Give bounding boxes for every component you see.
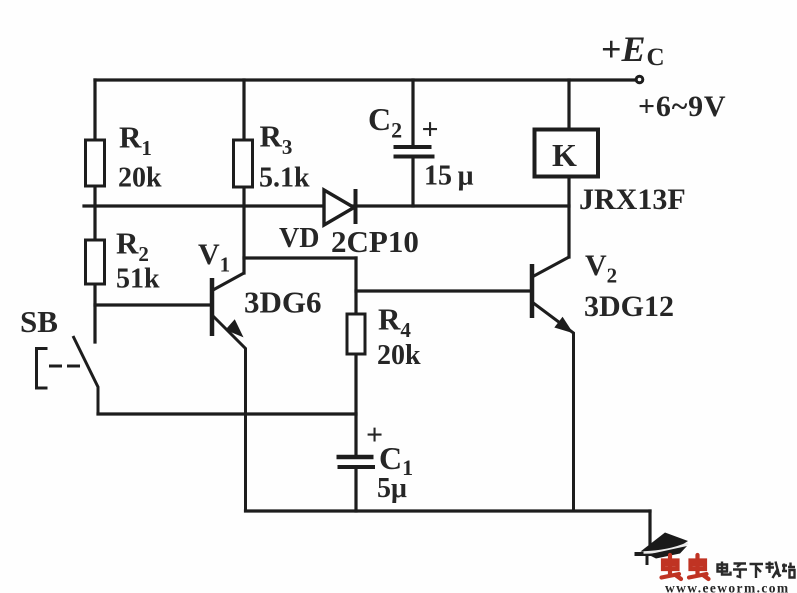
svg-text:V1: V1 xyxy=(198,238,230,277)
capacitor C1 xyxy=(337,457,376,467)
svg-text:+6~9V: +6~9V xyxy=(638,90,726,123)
svg-text:K: K xyxy=(552,137,577,173)
svg-text:3DG6: 3DG6 xyxy=(244,285,322,320)
wire ground drop xyxy=(648,511,651,553)
watermark site name characters xyxy=(718,562,796,579)
svg-text:3DG12: 3DG12 xyxy=(584,290,674,323)
svg-text:R2: R2 xyxy=(116,226,149,267)
svg-text:JRX13F: JRX13F xyxy=(579,183,686,216)
wire C2 bottom xyxy=(411,157,414,206)
wire V2 base line xyxy=(356,289,531,292)
svg-text:51k: 51k xyxy=(116,264,160,295)
wire R3 / V1 collector column xyxy=(242,80,245,273)
wire top +Ec rail xyxy=(95,78,636,81)
svg-text:5.1k: 5.1k xyxy=(259,163,310,194)
terminal +Ec xyxy=(636,76,643,83)
resistor R4 xyxy=(347,314,365,354)
capacitor C2 xyxy=(394,147,435,157)
svg-text:20k: 20k xyxy=(118,163,162,194)
wire collector-to-R4 link xyxy=(244,256,356,259)
ground xyxy=(635,554,668,565)
wire K bottom / V2 collector xyxy=(567,177,570,257)
svg-text:R4: R4 xyxy=(378,302,411,343)
svg-text:15 μ: 15 μ xyxy=(424,161,474,192)
resistor R1 xyxy=(86,140,105,186)
wire V1 base line xyxy=(95,303,211,306)
resistor R2 xyxy=(86,240,105,284)
svg-text:www.eeworm.com: www.eeworm.com xyxy=(665,581,790,593)
wire left column xyxy=(93,80,96,342)
transistor V2 xyxy=(532,257,574,511)
svg-text:VD: VD xyxy=(279,223,319,254)
svg-text:20k: 20k xyxy=(377,340,421,371)
transistor V1 xyxy=(212,273,246,511)
wire K top xyxy=(567,80,570,129)
svg-text:R3: R3 xyxy=(260,119,293,160)
watermark chongchong characters xyxy=(662,555,709,579)
svg-text:V2: V2 xyxy=(585,249,617,288)
svg-text:+: + xyxy=(366,419,383,452)
wire diode row xyxy=(84,204,569,207)
svg-text:R1: R1 xyxy=(119,120,152,161)
svg-text:+EC: +EC xyxy=(601,29,665,71)
relay K xyxy=(535,130,599,177)
watermark graduation cap logo xyxy=(641,533,689,559)
wire switch bottom row xyxy=(98,412,356,415)
svg-text:2CP10: 2CP10 xyxy=(331,224,419,259)
svg-text:5μ: 5μ xyxy=(377,473,407,504)
diode VD xyxy=(324,189,356,225)
resistor R3 xyxy=(234,140,253,187)
switch SB xyxy=(37,336,99,414)
wire bottom emitter rail xyxy=(246,509,651,512)
wire R4 column lower xyxy=(354,468,357,511)
wire C2 top xyxy=(411,80,414,145)
wire R4 column upper xyxy=(354,258,357,455)
svg-text:C2: C2 xyxy=(368,101,402,143)
svg-text:+: + xyxy=(422,113,439,146)
svg-text:SB: SB xyxy=(20,304,58,339)
